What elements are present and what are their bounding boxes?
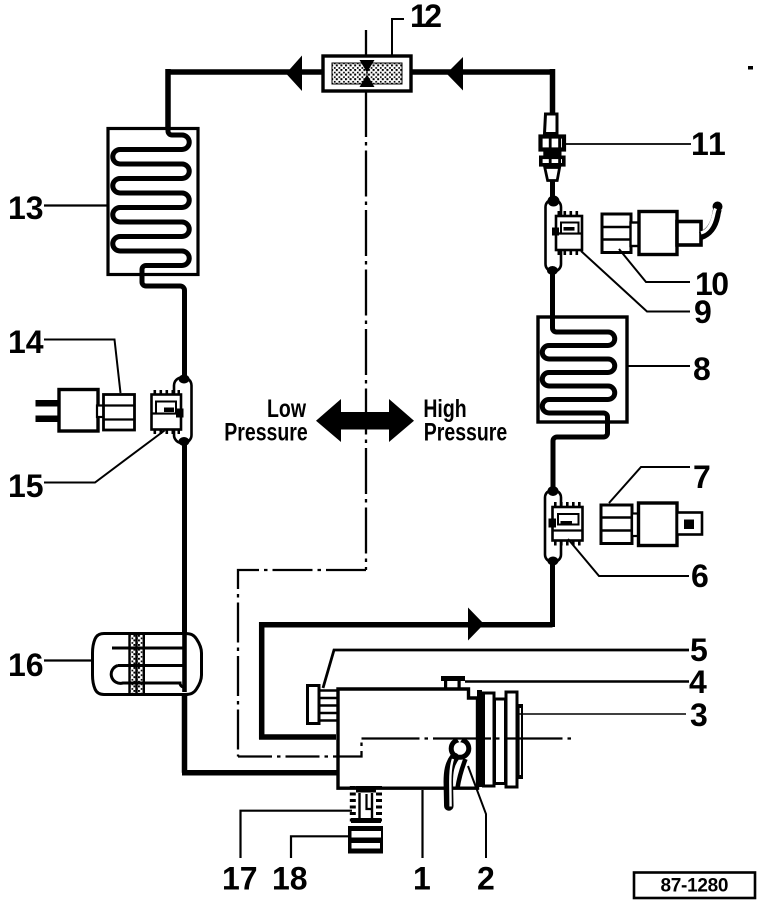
oil plug 17 serration right [376,786,382,822]
sight glass 6 capsule [545,490,561,562]
receiver drier 16 desiccant stipple [130,635,143,693]
figure number box 87-1280 [634,873,755,899]
label 14 leader [44,340,121,394]
pressure boundary dash-dot vertical below 12 [365,30,367,570]
pressure boundary dash-dot through pulley [362,737,576,739]
fitting 9 body [556,216,582,250]
svg-text:5: 5 [690,632,708,668]
svg-text:6: 6 [691,558,709,594]
valve 11 mid band [543,152,561,156]
label 1 leader [421,790,423,858]
pulley end cap slit [519,708,521,775]
pressure switch 7 hex nut [601,505,632,544]
receiver drier 16 inner tube middle [118,664,183,667]
wire: receiver drier 16 down and right to compressor (suction side bottom) [182,692,337,773]
svg-text:3: 3 [690,697,708,733]
pressure switch 7 body [639,503,678,546]
restrictor / filter 12 [323,56,411,91]
fitting 15 inner rect [156,402,176,414]
pulley end cap [518,704,524,779]
pressure switch 14 body [59,390,98,432]
svg-text:15: 15 [8,468,44,504]
svg-text:13: 13 [8,190,44,226]
fitting 6 serration bottom [554,541,581,546]
fitting 9 inner rect [561,223,579,234]
belt hook 2 prong bundle [448,758,454,807]
svg-text:10: 10 [695,266,729,302]
low pressure label [267,395,306,423]
pressure boundary dash-dot into compressor [238,739,362,757]
wire: left line, sight glass 15 to receiver drier 16 [182,440,187,636]
pulley disc C / component 3 [506,692,517,787]
svg-text:2: 2 [477,861,495,897]
compressor 1 body [338,689,478,788]
label 13 leader [44,204,107,206]
label 11 leader [566,143,691,145]
low/high pressure double arrow [316,399,414,442]
fitting 9 black nib [552,228,559,236]
fitting 9 serration top [558,211,582,216]
pressure switch 7 neck [632,514,639,537]
pulley disc B [495,699,506,784]
sight glass 15 end blobs [179,375,190,384]
svg-text:Pressure: Pressure [424,418,507,446]
label 18 leader [291,836,348,858]
pressure switch 14 neck [97,406,104,418]
receiver drier 16 body [93,634,202,695]
receiver drier 16 inlet line inside [182,634,187,692]
valve 11 lower block [541,157,564,165]
pressure switch 10 wire core [701,209,716,234]
cap 18 [348,826,383,854]
pressure boundary dash-dot jog left [238,570,366,757]
fitting 9 inner bar [564,227,575,231]
fitting 15 body [152,395,182,430]
label 12 leader [392,19,404,55]
wire: top high-pressure line from evaporator to right corner [168,69,553,75]
flow arrow right of component 12 [447,57,464,91]
pressure switch 7 terminal [677,513,702,535]
belt hook 2 head [451,740,469,758]
pressure switch 10 wire [701,207,720,237]
svg-text:1: 1 [691,126,709,162]
condenser 8 body [538,317,627,422]
svg-text:7: 7 [693,459,711,495]
label 10 leader [619,249,690,282]
speck artifact [748,66,753,70]
sight glass 9 end blobs [548,196,560,207]
evaporator 13 body [108,129,198,275]
fitting 6 inner rect [558,514,579,525]
fitting 15 inner bar [164,408,174,413]
evaporator 13 coil [113,128,190,378]
receiver drier 16 pickup u-bend [111,666,184,688]
discharge fitting 4 [441,676,465,688]
label 17 leader [241,811,353,858]
receiver drier 16 inner tube top [112,647,183,650]
belt hook 2 right strand [458,759,466,788]
pressure switch 14 pin 2 [36,416,60,423]
valve 11 bottom taper [545,168,560,181]
flow arrow on suction line [468,608,484,641]
pressure switch 10 wire stub [677,222,701,246]
fitting 6 inner bar [561,521,573,525]
sight glass 9 capsule [546,200,562,272]
pressure switch 10 hex lines [602,227,631,240]
high pressure label [423,395,466,423]
wire: fitting 6 down to suction corner [550,562,555,627]
label 4 leader [465,680,689,683]
svg-text:16: 16 [8,647,44,683]
wire: valve 11 to fitting 9 [550,180,555,205]
pressure switch 14 hex lines [104,406,135,420]
svg-text:17: 17 [222,861,258,897]
compressor clutch plate [477,690,482,787]
valve 11 neck [545,114,558,134]
wire: left drop from top line into evaporator [165,69,171,129]
svg-text:87-1280: 87-1280 [661,876,729,897]
label 8 leader [628,365,690,367]
suction port fitting 5 flange [308,686,320,724]
oil plug 17 body [351,786,381,823]
pressure switch 10 hex nut [602,214,631,253]
label 3 leader [519,713,686,715]
svg-text:Pressure: Pressure [224,418,307,446]
pressure switch 7 terminal hole [684,520,694,530]
svg-text:1: 1 [708,126,726,162]
svg-text:8: 8 [693,351,711,387]
svg-text:1: 1 [413,861,431,897]
svg-text:12: 12 [410,0,442,34]
flow arrow left of component 12 [286,56,302,92]
fitting 6 black nib [549,519,557,528]
pressure switch 14 pin 1 [36,400,60,407]
label 9 leader [581,251,690,312]
belt hook 2 head notch [455,736,464,743]
pressure switch 10 neck [631,223,640,247]
label 5 leader [323,650,689,688]
fitting 6 serration top [554,502,581,507]
fitting 6 body [553,507,583,541]
wire: suction line horizontal with flow arrow [259,622,553,628]
pressure switch 10 body [639,212,677,255]
wire: suction line into compressor [259,734,336,740]
fitting 15 mid line [152,412,182,414]
pressure switch 10 wire tip [713,202,723,212]
valve 11 upper block dividers [550,135,559,151]
svg-text:18: 18 [272,861,308,897]
label 2 leader [468,766,486,858]
fitting 6 mid line [553,529,583,531]
svg-text:4: 4 [689,664,707,700]
wire: fitting 9 to condenser 8 [550,271,555,320]
label 15 leader [44,431,165,483]
fitting 15 serration bottom [154,429,181,434]
fitting 9 serration bottom [558,250,582,255]
sight glass 15 capsule [174,378,192,444]
sight glass 6 end blobs [548,486,559,496]
fitting 9 mid line [556,232,582,234]
pressure switch 14 hex nut [104,395,135,431]
label 7 leader [609,467,690,503]
suction port fitting 5 ribs [319,691,338,721]
pressure switch 7 hex lines [601,518,632,531]
fitting 15 black nib [176,409,184,418]
svg-text:14: 14 [8,324,44,360]
wire: right drop from top line to valve 11 [550,69,556,115]
oil plug 17 serration left [350,786,356,822]
wire: suction line down leg [259,622,265,739]
receiver drier 16 desiccant strips [130,635,144,693]
condenser 8 coil [542,317,615,495]
belt hook 2 prong slit [450,759,453,807]
label 6 leader [568,539,689,576]
pulley disc A [484,693,495,786]
valve 11 upper block [541,137,565,150]
valve 11 lower block dividers [550,156,559,166]
fitting 15 serration top [154,390,181,395]
label 16 leader [44,659,93,661]
